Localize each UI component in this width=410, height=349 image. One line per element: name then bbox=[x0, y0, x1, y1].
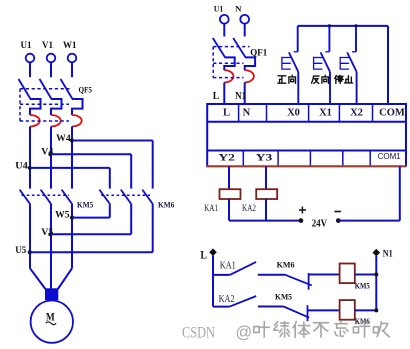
wire W4 down to KM6 pole3 bbox=[152, 141, 154, 189]
junction rail/button3 bbox=[354, 24, 357, 27]
contactor KM6 pole 1 bbox=[99, 190, 109, 204]
PLC input cell divider bbox=[238, 104, 240, 122]
wire QF5 pole 2 down to KM5 bbox=[50, 127, 52, 189]
svg-text:L: L bbox=[213, 90, 220, 102]
svg-text:V1: V1 bbox=[42, 40, 53, 50]
PLC input cell divider bbox=[372, 104, 374, 122]
terminal Nc bbox=[240, 15, 249, 24]
wire to motor W bbox=[58, 268, 72, 289]
wire W5 branch bbox=[72, 217, 110, 219]
wire U5 branch bbox=[30, 251, 153, 253]
wire rung1 a bbox=[213, 274, 230, 276]
wire Nc to QF1 bbox=[244, 24, 246, 37]
svg-text:U1: U1 bbox=[214, 4, 224, 14]
contact KA1 (NO) bbox=[230, 262, 256, 275]
wire U4 branch bbox=[30, 167, 110, 169]
svg-text:KM5: KM5 bbox=[275, 292, 292, 302]
node N1 bbox=[373, 249, 381, 257]
PLC bottom edge (red) bbox=[206, 165, 406, 167]
wire rung2 a bbox=[213, 306, 230, 308]
node V5 bbox=[48, 232, 52, 236]
label forward button bbox=[278, 76, 286, 83]
node W5 bbox=[70, 216, 74, 220]
motor terminal box bbox=[45, 288, 58, 300]
svg-text:QF5: QF5 bbox=[79, 84, 93, 94]
PLC output row top bbox=[207, 150, 406, 152]
svg-text:KA2: KA2 bbox=[219, 294, 235, 305]
wire rung1 d bbox=[355, 274, 377, 276]
PLC input cell divider bbox=[338, 104, 340, 122]
PLC terminal block outline bbox=[207, 104, 406, 166]
terminal W1 bbox=[68, 54, 77, 63]
node U4 bbox=[28, 166, 32, 170]
wire W phase KM5 out bbox=[71, 203, 73, 268]
label reverse button bbox=[312, 76, 320, 83]
contactor KM5 pole 2 bbox=[41, 190, 51, 204]
wire U4 down to KM6 pole1 bbox=[109, 168, 111, 189]
wire rung1 b bbox=[258, 274, 285, 276]
svg-text:W1: W1 bbox=[63, 40, 77, 50]
contactor KM6 pole 2 bbox=[121, 190, 131, 204]
wire U phase KM5 out bbox=[29, 203, 31, 268]
svg-text:KM5: KM5 bbox=[355, 281, 370, 290]
wire N1 rail bbox=[375, 256, 377, 311]
wire W4 branch bbox=[72, 140, 153, 142]
svg-text:M: M bbox=[46, 309, 55, 323]
node U5 bbox=[28, 250, 32, 254]
thermal element QF1 pole 1 bbox=[224, 70, 233, 82]
wire KA1 to 24V bbox=[228, 199, 230, 221]
svg-text:KM5: KM5 bbox=[77, 199, 93, 209]
wire minus to COM1 bbox=[338, 220, 400, 222]
svg-text:COM: COM bbox=[379, 107, 405, 118]
wire rung2 c bbox=[308, 309, 340, 311]
wire rung2 b bbox=[258, 306, 284, 308]
svg-text:W5: W5 bbox=[55, 210, 70, 220]
thermal element QF5 pole 1 bbox=[30, 115, 40, 127]
svg-text:@: @ bbox=[236, 323, 253, 341]
QF5 trip linkage dashed lines bbox=[20, 88, 72, 90]
svg-text:L: L bbox=[223, 107, 230, 118]
svg-text:QF1: QF1 bbox=[250, 48, 267, 58]
contact KA2 (NO) bbox=[230, 296, 257, 307]
junction rung1/N1 bbox=[374, 273, 378, 277]
svg-text:N: N bbox=[235, 4, 242, 14]
contact KM5 (NC) bbox=[284, 307, 310, 318]
wire KM6 pole3 down to U5 bbox=[152, 203, 154, 252]
wire V4 down to KM6 pole2 bbox=[130, 154, 132, 188]
svg-text:W4: W4 bbox=[56, 133, 71, 143]
PLC output cell divider bbox=[309, 151, 311, 167]
wire QF5 pole 3 down to KM5 bbox=[71, 127, 73, 189]
junction rung2/N1 bbox=[374, 308, 378, 312]
PLC output cell divider bbox=[277, 151, 279, 167]
contactor KM5 pole 3 bbox=[62, 190, 72, 204]
node V4 bbox=[48, 152, 52, 156]
PLC output cell divider bbox=[342, 151, 344, 167]
svg-text:N: N bbox=[243, 107, 251, 118]
svg-text:V5: V5 bbox=[41, 227, 54, 237]
svg-text:X2: X2 bbox=[350, 107, 363, 118]
svg-text:CSDN: CSDN bbox=[182, 324, 215, 341]
contactor coil KM5 bbox=[340, 264, 355, 284]
wire KM6 pole2 down to V5 bbox=[130, 203, 132, 234]
svg-text:KA1: KA1 bbox=[220, 261, 236, 272]
contactor KM6 pole 3 bbox=[142, 190, 152, 204]
wire W1 to QF5 bbox=[71, 62, 73, 77]
wire V1 to QF5 bbox=[50, 62, 52, 77]
svg-text:U4: U4 bbox=[15, 160, 28, 170]
svg-text:X1: X1 bbox=[319, 107, 332, 118]
pushbutton SB stop bbox=[355, 26, 357, 52]
wire V4 branch bbox=[50, 153, 131, 155]
minus sign bbox=[334, 211, 341, 213]
wire QF1 pole 1 to PLC bbox=[223, 82, 225, 104]
contact KM6 (NC) bbox=[285, 275, 312, 286]
wire rung2 d bbox=[355, 309, 377, 311]
PLC input cell divider bbox=[266, 104, 268, 122]
circuit breaker QF5 pole 1 bbox=[19, 79, 31, 99]
wire button supply rail bbox=[298, 25, 388, 27]
wire Y3 to KA2 bbox=[265, 166, 267, 189]
relay coil KA2 bbox=[256, 189, 277, 199]
svg-text:KM6: KM6 bbox=[158, 199, 174, 209]
wire KA2 to 24V bbox=[265, 199, 267, 221]
PLC output cell divider bbox=[369, 151, 371, 167]
circuit breaker QF1 pole 1 bbox=[213, 38, 225, 57]
terminal V1 bbox=[47, 54, 56, 63]
svg-text:KM6: KM6 bbox=[277, 260, 295, 270]
circuit breaker QF5 pole 2 bbox=[40, 79, 52, 99]
svg-text:X0: X0 bbox=[287, 107, 300, 118]
svg-text:24V: 24V bbox=[312, 218, 328, 229]
wire U1c to QF1 bbox=[223, 24, 225, 37]
wire V5 branch bbox=[50, 233, 131, 235]
wire U1 to QF5 bbox=[29, 62, 31, 77]
thermal element QF5 pole 2 bbox=[51, 115, 61, 127]
wire V phase KM5 out bbox=[50, 203, 52, 288]
KM5 linkage dashed bbox=[22, 194, 70, 196]
svg-text:N1: N1 bbox=[383, 249, 393, 259]
PLC output cell divider bbox=[242, 151, 244, 167]
circuit breaker QF5 pole 3 bbox=[61, 79, 73, 99]
terminal U1 bbox=[26, 54, 35, 63]
wire QF5 pole 1 down to KM5 bbox=[29, 127, 31, 189]
relay coil KA1 bbox=[220, 189, 241, 199]
motor tilde bbox=[46, 322, 56, 325]
wire Y2 to KA1 bbox=[228, 166, 230, 189]
svg-text:Y2: Y2 bbox=[218, 152, 235, 162]
svg-text:KA2: KA2 bbox=[242, 204, 256, 214]
svg-text:KA1: KA1 bbox=[204, 204, 218, 214]
wire KM6 pole1 down to W5 bbox=[109, 203, 111, 217]
PLC input row divider bbox=[207, 121, 406, 123]
wire to motor U bbox=[30, 268, 45, 289]
circuit breaker QF1 pole 2 bbox=[233, 38, 245, 57]
thermal element QF1 pole 2 bbox=[245, 70, 254, 82]
junction rail/button2 bbox=[328, 24, 331, 27]
label stop button bbox=[335, 75, 343, 83]
svg-text:U5: U5 bbox=[15, 245, 26, 255]
svg-text:COM1: COM1 bbox=[378, 152, 402, 161]
contactor KM5 pole 1 bbox=[20, 190, 30, 204]
24V supply plus terminal bbox=[299, 218, 304, 223]
terminal U1c bbox=[220, 15, 229, 24]
wire L rail bbox=[212, 256, 214, 307]
plus sign bbox=[299, 207, 306, 214]
pushbutton SB reverse bbox=[328, 26, 330, 52]
svg-text:L: L bbox=[200, 249, 207, 261]
svg-text:N1: N1 bbox=[235, 91, 246, 102]
motor M circle bbox=[31, 301, 73, 343]
PLC input cell divider bbox=[308, 104, 310, 122]
thermal element QF5 pole 3 bbox=[72, 115, 82, 127]
pushbutton SB forward bbox=[297, 26, 299, 52]
wire rail to COM bbox=[387, 26, 389, 104]
wire rung1 c bbox=[309, 274, 340, 276]
contactor coil KM6 bbox=[340, 300, 355, 320]
svg-text:U1: U1 bbox=[21, 40, 32, 50]
QF1 trip linkage dashed lines bbox=[213, 46, 249, 48]
node L bbox=[209, 248, 217, 256]
KM6 linkage dashed bbox=[101, 194, 150, 196]
svg-text:Y3: Y3 bbox=[256, 152, 273, 162]
24V supply minus terminal bbox=[336, 218, 341, 223]
wire QF1 pole 2 to PLC bbox=[244, 82, 246, 104]
node W4 bbox=[70, 138, 74, 142]
